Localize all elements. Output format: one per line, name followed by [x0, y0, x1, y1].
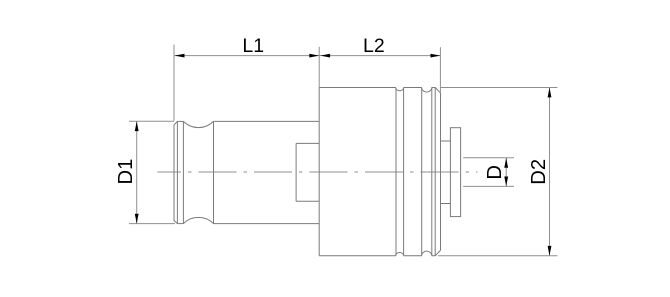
svg-text:D2: D2 — [528, 159, 550, 185]
svg-text:D: D — [484, 165, 506, 180]
svg-text:D1: D1 — [115, 159, 137, 185]
svg-text:L1: L1 — [242, 35, 264, 57]
svg-text:L2: L2 — [363, 35, 385, 57]
